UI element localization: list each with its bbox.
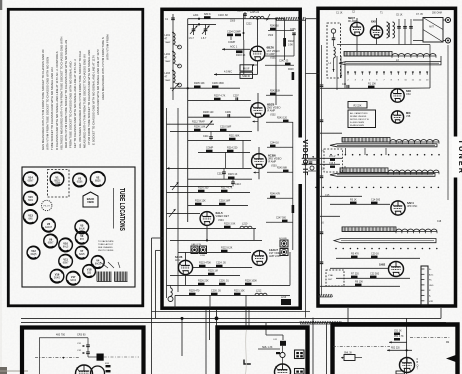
svg-text:AMP V205: AMP V205 (269, 255, 281, 258)
fuse strip pattern 1 (97, 272, 112, 282)
tube V5 agc (178, 260, 192, 274)
tube location V5 6AU6 (75, 220, 89, 234)
svg-text:E SOCKET TO CHASSIS GND WITH N: E SOCKET TO CHASSIS GND WITH NO SIGNAL A… (92, 55, 96, 145)
svg-text:GES MEASURED WITH VTVM FROM TU: GES MEASURED WITH VTVM FROM TUBE SOCKET … (41, 49, 45, 150)
svg-text:6AL5: 6AL5 (63, 246, 69, 249)
wire vertical left2 (177, 108, 179, 292)
capacitor C22 blob (370, 272, 380, 278)
svg-text:TRAP: TRAP (165, 79, 171, 82)
wire branch y164 (302, 163, 306, 165)
tube V101 label (348, 16, 357, 23)
tube V104 mixer b (391, 111, 403, 123)
tube V105 labels (407, 201, 418, 208)
svg-text:6K6: 6K6 (28, 218, 33, 220)
svg-text:R220 3.9K: R220 3.9K (224, 222, 236, 225)
svg-text:V15: V15 (28, 195, 33, 199)
svg-text:PIX IF: PIX IF (243, 68, 250, 71)
rf section A contacts (347, 71, 428, 74)
svg-text:C209: C209 (225, 111, 231, 114)
wire h y124 trimmer (167, 121, 215, 129)
br arrow wire y350 (387, 348, 412, 352)
br dashdot wire 2 (410, 337, 450, 339)
tube V101 leads (356, 18, 358, 51)
resistor R214 (227, 146, 238, 152)
svg-text:680 K: 680 K (204, 12, 211, 16)
wire h y278 (336, 277, 410, 279)
tube V2 second video if (251, 103, 266, 118)
tube V106 xtal (389, 262, 404, 277)
bm jack square 2 (295, 369, 305, 374)
tube location V9 6SN7 (44, 234, 58, 248)
bm circle comp (276, 346, 285, 364)
svg-text:6T8: 6T8 (80, 239, 85, 241)
resistor R231 (234, 289, 245, 295)
svg-text:DET: DET (328, 279, 333, 281)
svg-text:SND IF: SND IF (242, 75, 250, 78)
resistor R213 comp (206, 146, 214, 152)
jack J2 (200, 246, 207, 257)
resistor R205 (194, 82, 205, 88)
svg-text:C7 .05: C7 .05 (416, 14, 423, 16)
tube chart note (98, 240, 114, 252)
antenna wires (413, 20, 446, 41)
tube V103 labels (406, 89, 411, 96)
resistor R245 (277, 167, 289, 172)
resistor R240 (270, 26, 279, 31)
svg-text:TO FACILITATE: TO FACILITATE (98, 240, 114, 243)
wire v345 (344, 62, 346, 89)
svg-text:O CHASSIS GND WITH NO SIGNAL A: O CHASSIS GND WITH NO SIGNAL AND LINE AT… (55, 51, 59, 150)
svg-text:L204: L204 (193, 14, 199, 17)
svg-text:C218 1MF: C218 1MF (219, 199, 231, 202)
svg-text:R7 220: R7 220 (351, 272, 359, 275)
svg-text:L212: L212 (256, 289, 262, 292)
bl tube V301 (76, 365, 93, 374)
wire h y131 (170, 130, 252, 132)
resistor R101 (368, 82, 376, 88)
tube V101 rf amp (350, 22, 363, 35)
svg-text:R231 10K: R231 10K (234, 289, 245, 292)
br tube vertical label (417, 358, 419, 371)
svg-text:R226 22K: R226 22K (198, 279, 209, 282)
svg-text:MIX: MIX (406, 111, 411, 115)
svg-text:V8: V8 (47, 222, 51, 226)
svg-text:VIDEO IF: VIDEO IF (301, 140, 308, 177)
svg-text:R228 100K: R228 100K (245, 279, 257, 282)
tube V2 labels (267, 102, 281, 116)
boxed label SND IF (240, 72, 253, 78)
bm comp blob (273, 339, 286, 346)
wire drop x209 (209, 310, 211, 340)
svg-text:V4: V4 (96, 259, 100, 263)
wire h y186 trimmer (170, 182, 232, 190)
svg-text:V2: V2 (96, 176, 100, 180)
resistor R211 (229, 134, 240, 140)
capacitor C230 blob (211, 289, 221, 295)
br arrow wire y342 (389, 341, 407, 343)
crt dashed outline (48, 170, 70, 198)
wire h y88 tuner (320, 87, 391, 89)
wire h y198 right (267, 197, 293, 199)
section left cluster (308, 156, 336, 171)
bl dark component (88, 354, 104, 361)
svg-text:C203 .68: C203 .68 (218, 14, 228, 17)
capacitor C103 (409, 19, 413, 36)
wire h2 (188, 23, 216, 25)
rf section D slider (334, 239, 436, 243)
arrow test point (264, 14, 270, 21)
svg-text:K=1000 OHMS: K=1000 OHMS (350, 122, 365, 124)
svg-text:R240 1K: R240 1K (270, 26, 279, 28)
antenna terminal 2 (446, 38, 451, 43)
coil L210 (240, 222, 252, 228)
resistor R220 (224, 222, 236, 228)
svg-text:C211: C211 (203, 135, 209, 138)
svg-text:IF AMP: IF AMP (267, 110, 276, 113)
capacitor C218 blob (219, 199, 231, 205)
svg-text:HTR: HTR (429, 301, 434, 303)
wire grid V1 arrow (222, 46, 250, 51)
svg-text:V18: V18 (87, 268, 92, 272)
wire plate V2 (257, 93, 259, 103)
resistor R223 (199, 261, 211, 267)
svg-text:R222 8.2K: R222 8.2K (221, 246, 233, 249)
wire h y204 (330, 203, 390, 205)
jack J4 (280, 249, 288, 256)
left page border (8, 9, 143, 306)
resistor R246 (270, 193, 281, 198)
vertical resistor right2 (292, 205, 295, 213)
hatched wire y295 (318, 294, 332, 297)
tube V103 osc (391, 89, 404, 102)
svg-text:C226 .01: C226 .01 (219, 279, 229, 282)
tube locations box (22, 167, 135, 287)
svg-text:3.9K: 3.9K (288, 43, 293, 46)
svg-text:R203 1K: R203 1K (236, 54, 246, 57)
tube location V18 1B3 (83, 265, 96, 278)
bl ring (91, 366, 105, 374)
svg-text:C224 .05: C224 .05 (216, 261, 226, 264)
bl cap C301 (77, 338, 90, 347)
svg-text:R217 4.7K: R217 4.7K (221, 186, 233, 189)
svg-text:NOTED. RES 1/2 W: NOTED. RES 1/2 W (350, 119, 369, 121)
svg-text:6SN7: 6SN7 (48, 243, 54, 245)
svg-text:V4B: V4B (406, 116, 411, 118)
wire h y228 (167, 227, 257, 229)
tube location V4 6AG5 (91, 256, 104, 269)
svg-text:6X8: 6X8 (371, 20, 376, 24)
wire h y74 arrow (214, 70, 244, 75)
rf coil section D (342, 227, 437, 233)
left labels (321, 150, 330, 198)
svg-text:1N82: 1N82 (379, 263, 386, 267)
resistor R208 (203, 111, 214, 117)
wire y311 (152, 311, 311, 313)
capacitor C224 blob (216, 261, 226, 267)
svg-text:R51 4.7K: R51 4.7K (394, 336, 404, 338)
wire cathode V1 (244, 61, 258, 75)
wire h y216 (320, 216, 442, 224)
svg-text:V204: V204 (218, 219, 224, 222)
resistor R201 (204, 12, 211, 19)
svg-text:B-: B- (429, 296, 431, 298)
wire h y295 (175, 294, 290, 296)
resistor R243 (277, 117, 289, 122)
svg-text:R218 12K: R218 12K (195, 199, 206, 202)
svg-text:V14: V14 (28, 176, 33, 180)
svg-text:V202: V202 (270, 113, 276, 116)
tube V5 labels (175, 255, 183, 262)
capacitor C211 (203, 131, 213, 140)
svg-text:R215 1K: R215 1K (228, 173, 238, 176)
dashed enclosure (327, 23, 341, 78)
wire h y152 (198, 151, 250, 153)
br tube V501 (400, 358, 415, 373)
tube location V1 6BZ6 (50, 172, 64, 186)
page edge mark (0, 0, 28, 374)
svg-text:C206 1500: C206 1500 (212, 82, 224, 85)
wire vertical gap right (305, 19, 307, 318)
rf section B dots (330, 154, 440, 156)
tube location V17 6AX4 (66, 271, 80, 285)
svg-text:UHF OSC: UHF OSC (407, 206, 418, 208)
trimmer bottom left (168, 285, 173, 301)
bl labels (56, 333, 86, 336)
svg-text:C5 1K: C5 1K (396, 15, 403, 17)
svg-text:L208: L208 (200, 255, 206, 257)
tube V105 uhf osc (391, 201, 405, 215)
trimmer arrow y83 (172, 83, 179, 91)
svg-text:R212 TRAP: R212 TRAP (192, 121, 205, 124)
resistor R229 (189, 289, 200, 295)
svg-text:WITH VTVM FROM: WITH VTVM FROM (105, 34, 109, 60)
svg-text:BACK: BACK (87, 197, 95, 201)
svg-text:R5 47K: R5 47K (351, 252, 359, 255)
tube location V16 5U4G (50, 269, 64, 283)
svg-text:M=MEGOHMS: M=MEGOHMS (350, 125, 365, 127)
svg-text:IF AMP: IF AMP (267, 53, 276, 56)
svg-text:TUBE LAYOUT: TUBE LAYOUT (98, 243, 114, 246)
svg-text:VTVM FROM TUBE SOCKET TO CHASS: VTVM FROM TUBE SOCKET TO CHASSIS GND WIT… (87, 50, 91, 145)
svg-text:1.5-7: 1.5-7 (189, 38, 195, 40)
wire top horizontal (188, 18, 250, 20)
wire into tuner (306, 18, 317, 20)
resistor box R2 (348, 102, 367, 109)
svg-text:12AU7: 12AU7 (45, 226, 53, 229)
svg-text:R207 4.7K: R207 4.7K (214, 94, 226, 97)
svg-text:IF AMP: IF AMP (268, 161, 277, 164)
wire h y95 right (266, 94, 293, 96)
rf section C slider (330, 166, 435, 176)
vertical resistor right (288, 69, 294, 80)
terminal strip (421, 266, 434, 305)
wire v 243 (243, 40, 245, 74)
svg-text:MEASURED WITH VTVM FROM TUBE S: MEASURED WITH VTVM FROM TUBE SOCKET TO C… (82, 54, 86, 148)
wire drop x246 (246, 310, 249, 327)
svg-text:SML 2K: SML 2K (344, 352, 353, 354)
wire V5 pins (185, 252, 187, 285)
bl cap C302 (77, 347, 90, 354)
svg-text:R214 220: R214 220 (227, 146, 238, 149)
svg-text:V16: V16 (55, 273, 60, 277)
resistor R9 (355, 280, 363, 286)
tube V3 labels (268, 153, 282, 167)
wire cathode V2 (253, 117, 259, 131)
wire drop x182 (181, 317, 184, 356)
svg-text:L213: L213 (281, 297, 287, 299)
svg-text:R3 1K: R3 1K (350, 198, 357, 201)
wire h y285 (167, 284, 291, 286)
capacitor C212 (217, 168, 226, 179)
label TUNER (452, 137, 462, 178)
wire gap left vertical 1 (151, 238, 153, 374)
capacitor C207 (233, 94, 239, 101)
svg-text:C10: C10 (342, 84, 347, 86)
resistor R225 (208, 269, 218, 275)
dashed box xtal (326, 270, 344, 286)
rf coil section C (340, 168, 439, 174)
svg-text:6BQ7: 6BQ7 (348, 16, 356, 20)
capacitor C102 (403, 19, 407, 36)
svg-text:XTAL: XTAL (328, 274, 334, 277)
svg-text:6AX4: 6AX4 (70, 279, 76, 282)
tube V102 leads (376, 18, 378, 45)
svg-text:C207: C207 (233, 94, 239, 97)
bm entry wire (266, 330, 283, 340)
peaking coil L205 (250, 11, 264, 19)
wire h y133 (320, 132, 342, 134)
tube location V8 12AU7 (42, 218, 56, 232)
gap wire cap (304, 163, 308, 165)
antenna input (423, 18, 443, 43)
resistor R241 (279, 60, 291, 65)
rf section B slider (330, 141, 437, 155)
wire screen v1 (265, 29, 296, 56)
resistor R226 (198, 279, 209, 285)
svg-text:6BZ6: 6BZ6 (95, 181, 101, 183)
svg-text:PHOTO VIEWS: PHOTO VIEWS (98, 250, 114, 252)
svg-text:6AG5: 6AG5 (95, 263, 102, 266)
wire h y117 (188, 116, 251, 118)
resistor R202 vertical (250, 19, 294, 60)
bm tube V401 (275, 364, 291, 374)
svg-text:6CB6: 6CB6 (77, 182, 83, 184)
wire h y268 (330, 267, 388, 269)
svg-text:C18: C18 (437, 221, 442, 223)
svg-text:AGC: AGC (175, 259, 181, 262)
wire drop x348 (347, 308, 349, 324)
resistor R203 (236, 50, 246, 57)
svg-text:C22 500: C22 500 (370, 272, 380, 275)
svg-text:V10: V10 (63, 242, 68, 246)
tube location V13 6K6 (24, 210, 38, 224)
svg-text:6W4: 6W4 (28, 200, 33, 202)
wire h y158 entry (302, 157, 342, 159)
boxed label PIX IF (240, 65, 253, 71)
top label row (193, 14, 236, 22)
wire h y140 (188, 139, 251, 141)
variable cap C202 (189, 24, 198, 40)
svg-text:R242 10K: R242 10K (270, 90, 281, 92)
tuner box border (318, 8, 456, 306)
coil L212 (255, 289, 267, 295)
enclosure contents (329, 29, 336, 72)
svg-text:R208 120: R208 120 (203, 111, 214, 114)
br left trimmer box (341, 352, 362, 360)
parts note box (348, 110, 376, 128)
bl dashdot wire (35, 357, 80, 359)
wire drop x266 (265, 323, 267, 330)
bottom middle box border (218, 328, 308, 374)
capacitor C201 (237, 10, 250, 19)
wire h y164 entry (302, 163, 340, 165)
svg-text:R223 470K: R223 470K (199, 261, 211, 264)
resistor R216 (198, 186, 209, 192)
wire v 254 (253, 228, 255, 240)
br comp under tube (396, 371, 405, 374)
svg-text:V6: V6 (80, 234, 84, 238)
wire v right 293 (292, 122, 294, 250)
tube location V10 6AL5 (59, 238, 73, 252)
bus wire 1 (21, 317, 441, 319)
svg-text:CRT: CRT (55, 181, 61, 185)
svg-text:FROM TUBE SOCKET TO CHASSIS GN: FROM TUBE SOCKET TO CHASSIS GND WITH NO … (69, 62, 73, 148)
svg-text:IN MMF UNLESS: IN MMF UNLESS (350, 116, 367, 118)
transformer T101 (387, 22, 395, 38)
wire h y286 (320, 285, 400, 287)
wire vertical left (166, 108, 168, 298)
wire v 290 (289, 252, 291, 285)
wire grid V3 arrow (167, 167, 252, 170)
tube location V14 6SN7 (23, 172, 37, 186)
resistor R3 (350, 198, 357, 204)
capacitor C226 blob (219, 279, 229, 285)
wire h y100 (188, 99, 251, 101)
strip leads (100, 262, 120, 268)
tuner top bus wire (337, 44, 430, 46)
wire branch y246 (152, 237, 164, 239)
svg-text:L205 24: L205 24 (250, 11, 260, 14)
svg-text:1K: 1K (247, 10, 250, 13)
fuse strip pattern 2 (115, 272, 128, 282)
svg-text:V12: V12 (31, 249, 36, 253)
wire gap left vertical 2 (155, 250, 157, 318)
wire branch y74 (306, 73, 320, 75)
service notes text rotated (41, 34, 109, 150)
shielded cable to tuner (264, 17, 306, 20)
svg-text:ASSIS GND WITH NO SIGNAL AND L: ASSIS GND WITH NO SIGNAL AND LINE AT 117… (96, 49, 100, 115)
svg-text:L210: L210 (242, 222, 248, 225)
wire vertical bus (187, 19, 189, 222)
svg-text:V5: V5 (80, 224, 84, 228)
resistor R247 (276, 217, 288, 222)
wire h y65 right (265, 64, 294, 66)
rf coil section B (342, 137, 439, 143)
resistor R217 (221, 186, 233, 192)
wire h y196 (320, 195, 362, 197)
wire h y258 (336, 257, 420, 259)
wire v341 (337, 56, 342, 90)
capacitor C213 (231, 179, 241, 186)
svg-text:VOLTAGES MEASURED WITH VTVM FR: VOLTAGES MEASURED WITH VTVM FROM TUBE SO… (59, 37, 63, 150)
svg-text:R243 120: R243 120 (277, 117, 288, 119)
svg-text:ALL VOLTAGES MEASURED WITH VTV: ALL VOLTAGES MEASURED WITH VTVM FROM TUB… (78, 51, 82, 148)
wire branch y158 (302, 157, 306, 159)
left cap 2 (320, 120, 324, 122)
tube V1 labels (267, 46, 280, 60)
rf section C dots (315, 187, 439, 189)
tube V4 labels (216, 211, 230, 222)
